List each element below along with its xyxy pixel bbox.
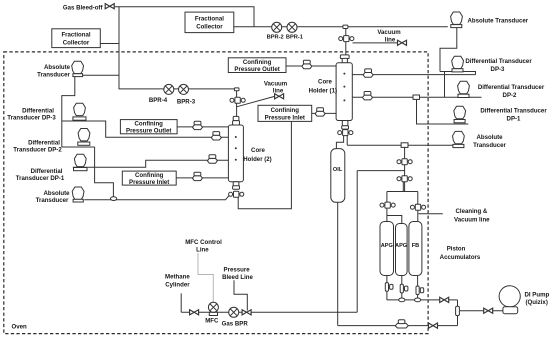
- valve cluster core holder 1 top: [339, 36, 354, 42]
- svg-text:Core: Core: [318, 79, 332, 86]
- junction square on port line 2: [413, 95, 420, 99]
- absolute transducer right bottom: [453, 131, 465, 147]
- wire DP-2 left bar and feed: [62, 147, 114, 197]
- wire FB drop: [417, 211, 419, 222]
- wire DP-3 bar: [440, 72, 476, 75]
- valve vacuum line top: [398, 40, 407, 45]
- svg-text:Absolute: Absolute: [476, 134, 503, 141]
- BPR-2 back pressure regulator: [272, 22, 282, 32]
- fitting below APG2: [400, 284, 408, 293]
- wire cv2 bottom stem: [402, 182, 404, 192]
- FB accumulator: [409, 222, 422, 276]
- svg-text:Holder (1): Holder (1): [309, 88, 337, 95]
- svg-text:Differential: Differential: [28, 139, 60, 146]
- svg-text:DI Pump: DI Pump: [525, 292, 550, 299]
- valve cluster core holder 2 top: [230, 97, 245, 103]
- wire core holder 1 top connection: [345, 29, 347, 56]
- svg-text:line: line: [385, 37, 396, 44]
- svg-text:APG: APG: [381, 243, 393, 249]
- svg-text:BPR-3: BPR-3: [177, 99, 196, 106]
- svg-text:Holder (2): Holder (2): [243, 156, 271, 163]
- svg-text:Confining: Confining: [243, 59, 272, 66]
- wire vacuum line stub top: [353, 42, 398, 44]
- wire pressure bleed line: [234, 280, 247, 310]
- svg-text:Transducer DP-1: Transducer DP-1: [16, 175, 65, 182]
- wire DP-3 to DP-2 link: [444, 72, 446, 98]
- svg-text:Pressure Outlet: Pressure Outlet: [234, 66, 279, 73]
- fitting on collector vertical: [456, 306, 460, 315]
- svg-text:MFC: MFC: [205, 318, 219, 325]
- BPR-3 back pressure regulator: [179, 84, 189, 94]
- svg-text:Pressure Inlet: Pressure Inlet: [265, 115, 305, 122]
- wire right collector vertical: [457, 300, 459, 326]
- svg-text:Line: Line: [196, 247, 209, 254]
- wire confining pressure inlet 1 line: [312, 112, 336, 114]
- wire core holder 2 bottom loop: [238, 121, 291, 208]
- svg-text:Oven: Oven: [12, 323, 28, 330]
- svg-text:Transducer DP-2: Transducer DP-2: [13, 146, 62, 153]
- valve cluster FB branch: [410, 204, 425, 210]
- svg-text:MFC Control: MFC Control: [185, 239, 222, 246]
- box confining pressure outlet (holder 2): [120, 120, 177, 134]
- svg-text:Pressure Inlet: Pressure Inlet: [129, 179, 169, 186]
- box fractional collector 1: [52, 29, 101, 48]
- MFC mass flow controller: [209, 312, 217, 315]
- fitting on port line 2: [363, 92, 373, 100]
- svg-text:Vacuum: Vacuum: [264, 80, 288, 87]
- wire main vertical riser x119: [119, 7, 237, 89]
- absolute transducer AT1 (left top): [72, 61, 84, 76]
- wire fractional collector 1 to riser: [100, 43, 119, 45]
- node union holder 1 top: [343, 25, 348, 28]
- wire DP-1 left measuring line: [73, 160, 229, 167]
- valve gas bleed-off: [105, 4, 114, 9]
- svg-text:Bleed Line: Bleed Line: [222, 274, 253, 281]
- wire accumulator feed vertical: [404, 147, 406, 192]
- gas BPR: [229, 307, 239, 317]
- wire DP-1 feed: [417, 99, 469, 124]
- svg-text:Core: Core: [251, 147, 265, 154]
- wire cleaning and vacuum line: [419, 213, 443, 215]
- valve oil bottom line: [429, 323, 438, 328]
- DI pump: [499, 286, 520, 307]
- valve after gas BPR: [242, 310, 251, 315]
- svg-text:Pressure Outlet: Pressure Outlet: [126, 128, 171, 135]
- valve cluster core holder 2 bottom: [229, 191, 244, 197]
- wire OIL bottom run: [338, 202, 458, 325]
- svg-text:Absolute: Absolute: [44, 64, 71, 71]
- wire confining pressure outlet 2 line: [177, 126, 228, 128]
- OIL accumulator: [331, 149, 345, 203]
- svg-text:Differential Transducer: Differential Transducer: [478, 84, 545, 91]
- fitting on outlet 2 line: [193, 121, 203, 129]
- absolute transducer right top: [451, 12, 463, 28]
- svg-text:Transducer: Transducer: [473, 142, 506, 149]
- svg-text:BPR-2: BPR-2: [267, 34, 284, 40]
- svg-text:Transducer: Transducer: [37, 72, 70, 79]
- wire DI pump line: [460, 310, 503, 312]
- wire core holder 1 port line 1: [352, 74, 475, 76]
- wire confining pressure inlet 2 line: [176, 177, 228, 179]
- wire top BPR line to right absolute transducer: [234, 26, 448, 28]
- wire AT2 line to holder 2 bottom valve: [84, 195, 229, 200]
- valve cluster accumulator 2: [397, 176, 412, 182]
- svg-text:BPR-1: BPR-1: [286, 34, 303, 40]
- svg-text:Collector: Collector: [63, 40, 90, 47]
- core holder 1: [336, 55, 352, 129]
- svg-text:Collector: Collector: [196, 24, 223, 31]
- wire APG1 drop and APG2 branch: [387, 208, 402, 224]
- svg-text:Cleaning &: Cleaning &: [456, 208, 488, 215]
- wire accumulator split bar: [387, 192, 418, 205]
- differential transducer DP-3 left: [73, 103, 86, 120]
- svg-text:Differential Transducer: Differential Transducer: [465, 58, 532, 65]
- valve vacuum line middle: [275, 94, 284, 99]
- fitting below APG1: [385, 283, 393, 292]
- svg-text:Gas BPR: Gas BPR: [222, 320, 249, 327]
- wire core holder 1 bottom to right absolute transducer: [347, 144, 453, 146]
- differential transducer DP-3 right: [452, 56, 464, 72]
- box fractional collector 2: [185, 12, 234, 32]
- svg-text:Gas Bleed-off: Gas Bleed-off: [63, 5, 104, 12]
- box confining pressure outlet (holder 1): [228, 58, 286, 73]
- svg-text:(Quizix): (Quizix): [526, 299, 548, 306]
- valve accumulator manifold: [440, 297, 449, 302]
- svg-text:Methane: Methane: [165, 274, 190, 281]
- fitting on outlet 1 line: [302, 60, 312, 68]
- wire right AT to DP-3 link: [440, 28, 457, 72]
- differential transducer DP-2 right: [458, 81, 470, 97]
- svg-text:Pressure: Pressure: [224, 267, 251, 274]
- svg-text:line: line: [273, 88, 284, 95]
- fitting below FB: [416, 286, 424, 295]
- svg-text:FB: FB: [412, 243, 419, 249]
- fitting on inlet 1 line: [315, 108, 325, 116]
- svg-text:Transducer DP-3: Transducer DP-3: [7, 115, 56, 122]
- svg-text:APG: APG: [395, 243, 407, 249]
- wire absolute transducer AT1 to riser: [83, 74, 119, 76]
- valve cluster accumulator 1: [397, 159, 412, 165]
- filter on bottom line: [395, 323, 408, 328]
- absolute transducer AT2 (left bottom): [72, 187, 84, 202]
- wire vacuum diagonal to holder 2 valve: [237, 96, 275, 106]
- svg-text:Confining: Confining: [271, 107, 300, 114]
- svg-text:Transducer: Transducer: [36, 197, 69, 204]
- valve DI pump line: [484, 308, 493, 313]
- differential transducer DP-2 left: [78, 129, 90, 146]
- fitting on port line 1: [363, 69, 373, 77]
- node oval manifold a: [399, 298, 405, 302]
- wire core holder 2 top feed: [236, 91, 238, 117]
- node oval AT2 line: [111, 197, 117, 201]
- svg-text:Differential: Differential: [31, 168, 63, 175]
- wire left column link AT1 down: [62, 77, 75, 148]
- differential transducer DP-1 left: [74, 154, 88, 171]
- svg-text:Confining: Confining: [135, 172, 164, 179]
- wire methane line riser: [181, 171, 404, 313]
- svg-text:BPR-4: BPR-4: [149, 97, 168, 104]
- valve methane inlet: [190, 310, 199, 315]
- svg-text:Vacuum line: Vacuum line: [454, 217, 490, 224]
- svg-text:Absolute: Absolute: [43, 190, 70, 197]
- wire accumulator bottom manifold: [387, 275, 458, 300]
- svg-text:Vacuum: Vacuum: [377, 29, 401, 36]
- svg-text:DP-1: DP-1: [507, 116, 521, 123]
- wire core holder 1 port line 2: [352, 96, 481, 98]
- svg-text:Fractional: Fractional: [195, 16, 224, 23]
- svg-text:DP-2: DP-2: [503, 92, 517, 99]
- core holder 2: [228, 116, 243, 189]
- fitting on DP-3 line: [211, 132, 221, 140]
- svg-text:Accumulators: Accumulators: [440, 254, 481, 261]
- wire MFC control line (gray): [198, 253, 213, 303]
- svg-text:Differential Transducer: Differential Transducer: [480, 108, 547, 115]
- junction square on BPR line: [234, 88, 239, 91]
- oven dashed enclosure: [4, 52, 428, 334]
- box confining pressure inlet (holder 1): [258, 105, 312, 121]
- svg-text:Absolute Transducer: Absolute Transducer: [468, 18, 529, 25]
- BPR-4 back pressure regulator: [164, 84, 174, 94]
- svg-text:Cylinder: Cylinder: [165, 282, 190, 289]
- fitting on inlet 2 line: [192, 172, 202, 180]
- svg-text:Piston: Piston: [447, 245, 466, 252]
- node oval manifold b: [415, 298, 421, 302]
- junction square on holder1 bottom line: [401, 143, 408, 148]
- valve cluster APG branch: [380, 202, 395, 208]
- wire DP-3 left measuring line: [62, 121, 229, 137]
- APG accumulator 1: [380, 222, 394, 276]
- wire gas bleed-off line: [114, 7, 254, 27]
- svg-text:Confining: Confining: [134, 121, 163, 128]
- differential transducer DP-1 right: [454, 106, 466, 123]
- valve cluster core holder 1 bottom: [338, 130, 353, 136]
- svg-text:Fractional: Fractional: [61, 32, 90, 39]
- BPR-1 back pressure regulator: [287, 22, 297, 32]
- wire confining pressure outlet 1 line: [286, 65, 336, 67]
- wire core holder 1 bottom drops: [336, 135, 343, 149]
- svg-text:OIL: OIL: [333, 167, 343, 173]
- fitting on DP-1 line: [207, 155, 217, 163]
- APG accumulator 2: [396, 224, 408, 276]
- svg-text:DP-3: DP-3: [491, 66, 505, 73]
- box confining pressure inlet (holder 2): [122, 171, 176, 185]
